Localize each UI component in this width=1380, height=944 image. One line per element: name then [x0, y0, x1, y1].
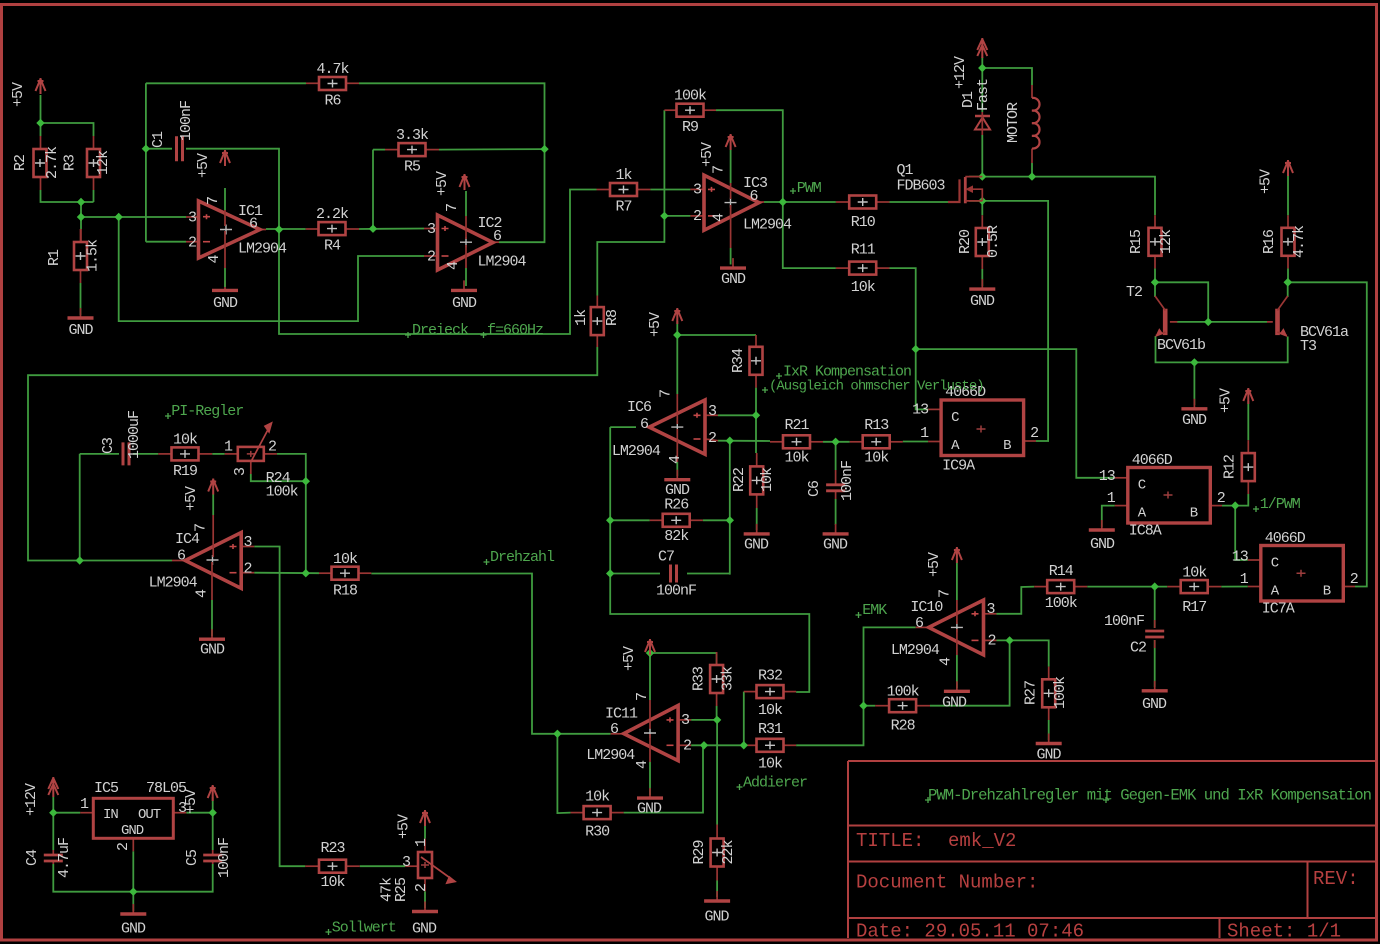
svg-text:Document Number:: Document Number: — [856, 872, 1038, 894]
svg-text:R25: R25 — [393, 877, 410, 902]
svg-text:+12V: +12V — [952, 56, 969, 89]
svg-text:7: 7 — [193, 524, 210, 532]
svg-text:GND: GND — [744, 537, 769, 554]
svg-text:R6: R6 — [324, 93, 341, 110]
svg-text:C: C — [951, 410, 959, 426]
svg-text:100k: 100k — [1045, 595, 1078, 612]
svg-text:100k: 100k — [887, 684, 920, 701]
svg-text:1: 1 — [920, 425, 929, 442]
svg-text:PI-Regler: PI-Regler — [171, 403, 243, 420]
svg-text:R15: R15 — [1128, 229, 1145, 254]
svg-text:C: C — [1271, 556, 1279, 572]
svg-text:3: 3 — [708, 403, 717, 420]
svg-text:+5V: +5V — [621, 646, 638, 671]
svg-text:PWM: PWM — [797, 180, 822, 197]
svg-text:C1: C1 — [150, 131, 167, 148]
svg-text:2: 2 — [693, 208, 701, 225]
svg-text:R2: R2 — [12, 155, 29, 171]
svg-text:7: 7 — [658, 390, 675, 398]
svg-text:+5V: +5V — [195, 153, 212, 178]
svg-text:R21: R21 — [784, 417, 809, 434]
svg-text:PWM-Drehzahlregler mit Gegen-E: PWM-Drehzahlregler mit Gegen-EMK und IxR… — [928, 787, 1371, 805]
svg-text:6: 6 — [915, 615, 924, 632]
svg-text:4: 4 — [206, 255, 223, 264]
svg-text:4: 4 — [938, 657, 955, 666]
svg-text:LM2904: LM2904 — [238, 241, 287, 258]
svg-text:GND: GND — [412, 921, 437, 938]
svg-text:4.7k: 4.7k — [1291, 225, 1308, 258]
svg-text:3: 3 — [244, 534, 253, 551]
svg-text:2: 2 — [413, 884, 430, 892]
svg-text:10k: 10k — [864, 450, 889, 467]
svg-text:3: 3 — [987, 601, 996, 618]
svg-text:100nF: 100nF — [656, 583, 696, 600]
svg-text:3: 3 — [402, 854, 411, 871]
svg-text:R33: R33 — [691, 666, 708, 691]
svg-text:2: 2 — [188, 235, 196, 252]
svg-text:R16: R16 — [1261, 229, 1278, 254]
svg-text:4066D: 4066D — [1132, 452, 1173, 469]
svg-text:B: B — [1190, 506, 1198, 522]
svg-text:4: 4 — [634, 760, 651, 769]
svg-text:4: 4 — [194, 589, 211, 598]
svg-text:IC4: IC4 — [175, 531, 200, 548]
svg-text:LM2904: LM2904 — [586, 747, 635, 764]
svg-text:7: 7 — [634, 693, 651, 701]
svg-text:3: 3 — [188, 210, 197, 227]
svg-text:EMK: EMK — [862, 602, 887, 619]
svg-text:2: 2 — [115, 843, 132, 851]
svg-text:2: 2 — [427, 249, 435, 266]
svg-text:GND: GND — [1182, 412, 1207, 429]
svg-text:7: 7 — [711, 166, 728, 174]
svg-text:REV:: REV: — [1313, 868, 1359, 890]
svg-text:1/PWM: 1/PWM — [1260, 496, 1301, 513]
svg-text:4.7uF: 4.7uF — [56, 838, 73, 878]
svg-text:R17: R17 — [1182, 599, 1206, 616]
svg-text:GND: GND — [1142, 696, 1167, 713]
svg-text:Date: 29.05.11 07:46: Date: 29.05.11 07:46 — [856, 921, 1084, 943]
svg-text:13: 13 — [1232, 549, 1249, 566]
svg-text:C4: C4 — [24, 849, 41, 866]
svg-text:+12V: +12V — [23, 783, 40, 816]
svg-text:82k: 82k — [664, 528, 689, 545]
svg-text:4: 4 — [445, 261, 462, 270]
svg-text:2: 2 — [683, 738, 691, 755]
svg-text:7: 7 — [205, 197, 222, 205]
svg-text:1.5k: 1.5k — [85, 239, 102, 272]
svg-text:10k: 10k — [759, 467, 776, 492]
svg-text:1: 1 — [80, 796, 89, 813]
svg-text:emk_V2: emk_V2 — [948, 830, 1016, 852]
svg-text:1000uF: 1000uF — [126, 411, 143, 459]
svg-text:+5V: +5V — [395, 814, 412, 839]
svg-text:GND: GND — [637, 801, 662, 818]
svg-text:R34: R34 — [730, 348, 747, 373]
svg-text:3: 3 — [427, 221, 436, 238]
svg-text:100k: 100k — [266, 484, 299, 501]
svg-text:Dreieck: Dreieck — [412, 322, 469, 339]
svg-text:+5V: +5V — [647, 312, 664, 337]
svg-text:R1: R1 — [46, 249, 63, 266]
svg-text:GND: GND — [121, 823, 144, 839]
svg-text:GND: GND — [200, 642, 225, 659]
svg-text:33k: 33k — [720, 666, 737, 691]
svg-text:Fast: Fast — [975, 79, 992, 111]
svg-text:6: 6 — [750, 188, 759, 205]
svg-text:3.3k: 3.3k — [396, 127, 429, 144]
svg-text:Q1: Q1 — [897, 162, 914, 179]
svg-text:100nF: 100nF — [216, 838, 233, 878]
svg-text:10k: 10k — [758, 756, 783, 773]
svg-text:T3: T3 — [1300, 338, 1317, 355]
svg-text:3: 3 — [232, 467, 249, 476]
svg-text:f=660Hz: f=660Hz — [487, 322, 543, 339]
svg-text:+5V: +5V — [1218, 388, 1235, 413]
svg-text:BCV61b: BCV61b — [1157, 337, 1205, 354]
svg-text:R26: R26 — [664, 497, 689, 514]
svg-text:LM2904: LM2904 — [478, 254, 527, 271]
svg-text:R32: R32 — [758, 668, 782, 685]
svg-text:GND: GND — [1090, 536, 1115, 553]
svg-text:FDB603: FDB603 — [897, 178, 946, 195]
svg-text:C3: C3 — [100, 437, 117, 454]
svg-text:R4: R4 — [324, 238, 341, 255]
svg-text:B: B — [1003, 438, 1011, 454]
svg-text:R12: R12 — [1222, 455, 1239, 479]
svg-text:T2: T2 — [1126, 284, 1142, 301]
svg-text:2.2k: 2.2k — [316, 206, 349, 223]
svg-text:1: 1 — [1107, 490, 1116, 507]
svg-text:+5V: +5V — [434, 171, 451, 196]
svg-text:10k: 10k — [784, 450, 809, 467]
svg-text:IC10: IC10 — [910, 599, 943, 616]
svg-text:R8: R8 — [604, 309, 621, 326]
svg-text:LM2904: LM2904 — [743, 217, 792, 234]
svg-text:IC6: IC6 — [627, 399, 652, 416]
svg-text:Addierer: Addierer — [743, 775, 807, 792]
svg-text:GND: GND — [121, 921, 146, 938]
svg-text:100nF: 100nF — [839, 461, 856, 501]
svg-text:6: 6 — [249, 216, 258, 233]
svg-text:1: 1 — [224, 439, 233, 456]
svg-text:2: 2 — [244, 561, 252, 578]
svg-text:LM2904: LM2904 — [891, 642, 940, 659]
svg-text:12k: 12k — [95, 150, 112, 175]
svg-text:GND: GND — [68, 322, 93, 339]
svg-text:R9: R9 — [682, 119, 698, 136]
svg-text:10k: 10k — [333, 551, 358, 568]
svg-text:4066D: 4066D — [1265, 530, 1306, 547]
svg-text:3: 3 — [693, 182, 702, 199]
svg-text:R23: R23 — [320, 840, 345, 857]
svg-text:R20: R20 — [957, 229, 974, 254]
svg-text:100nF: 100nF — [1104, 613, 1144, 630]
svg-text:GND: GND — [213, 295, 238, 312]
svg-text:1: 1 — [413, 838, 430, 847]
svg-text:Sheet: 1/1: Sheet: 1/1 — [1227, 921, 1341, 943]
svg-text:IC11: IC11 — [605, 706, 638, 723]
svg-text:GND: GND — [823, 537, 848, 554]
svg-text:2: 2 — [268, 439, 276, 456]
svg-text:13: 13 — [1099, 468, 1116, 485]
svg-text:LM2904: LM2904 — [149, 575, 198, 592]
svg-text:(Ausgleich ohmscher Verluste): (Ausgleich ohmscher Verluste) — [769, 379, 984, 395]
svg-text:7: 7 — [936, 590, 953, 598]
svg-text:R18: R18 — [333, 583, 358, 600]
svg-text:R19: R19 — [173, 463, 197, 480]
svg-text:4: 4 — [711, 213, 728, 222]
svg-text:1: 1 — [1240, 571, 1249, 588]
svg-text:R29: R29 — [691, 840, 708, 864]
svg-text:10k: 10k — [1182, 565, 1207, 582]
svg-text:2: 2 — [708, 430, 716, 447]
svg-text:C6: C6 — [806, 480, 823, 497]
svg-text:12k: 12k — [1158, 229, 1175, 254]
svg-text:2: 2 — [1217, 490, 1225, 507]
svg-text:R30: R30 — [585, 824, 610, 841]
svg-text:6: 6 — [640, 416, 649, 433]
svg-text:10k: 10k — [320, 874, 345, 891]
svg-text:GND: GND — [942, 695, 967, 712]
svg-text:2: 2 — [988, 633, 996, 650]
svg-text:+5V: +5V — [699, 142, 716, 167]
svg-text:6: 6 — [610, 721, 619, 738]
svg-text:2.7k: 2.7k — [44, 146, 61, 179]
svg-text:IC8A: IC8A — [1129, 523, 1162, 540]
svg-text:Sollwert: Sollwert — [332, 920, 396, 937]
svg-text:+5V: +5V — [926, 552, 943, 577]
svg-text:Drehzahl: Drehzahl — [490, 549, 555, 566]
svg-text:1k: 1k — [615, 167, 632, 184]
svg-text:R13: R13 — [864, 417, 889, 434]
svg-text:100nF: 100nF — [178, 101, 195, 141]
svg-text:2: 2 — [1350, 571, 1358, 588]
svg-text:IN: IN — [103, 807, 118, 823]
svg-text:2: 2 — [1030, 425, 1038, 442]
svg-text:78L05: 78L05 — [146, 780, 187, 797]
svg-text:R5: R5 — [404, 159, 421, 176]
svg-text:10k: 10k — [851, 279, 876, 296]
svg-text:IC7A: IC7A — [1262, 601, 1295, 618]
svg-text:+5V: +5V — [10, 82, 27, 107]
svg-text:10k: 10k — [758, 702, 783, 719]
svg-text:+5V: +5V — [1258, 169, 1275, 194]
svg-text:100k: 100k — [674, 88, 707, 105]
svg-text:10k: 10k — [173, 432, 198, 449]
svg-text:R22: R22 — [731, 468, 748, 492]
svg-text:4.7k: 4.7k — [316, 61, 349, 78]
svg-text:22k: 22k — [720, 840, 737, 865]
svg-text:6: 6 — [177, 548, 186, 565]
svg-text:GND: GND — [721, 271, 746, 288]
svg-text:GND: GND — [704, 909, 729, 926]
svg-text:100k: 100k — [1052, 676, 1069, 709]
svg-text:IC5: IC5 — [94, 780, 119, 797]
svg-text:R14: R14 — [1049, 563, 1074, 580]
svg-text:10k: 10k — [585, 789, 610, 806]
svg-text:OUT: OUT — [138, 807, 161, 823]
svg-text:R7: R7 — [615, 199, 631, 216]
svg-text:C2: C2 — [1130, 640, 1146, 657]
svg-text:IC9A: IC9A — [942, 458, 975, 475]
svg-text:3: 3 — [178, 800, 187, 817]
svg-text:MOTOR: MOTOR — [1005, 102, 1022, 143]
svg-text:GND: GND — [970, 293, 995, 310]
svg-text:R27: R27 — [1023, 681, 1040, 705]
svg-text:6: 6 — [493, 228, 502, 245]
svg-text:GND: GND — [452, 295, 477, 312]
svg-text:+5V: +5V — [183, 486, 200, 511]
svg-text:C7: C7 — [658, 549, 674, 566]
svg-text:3: 3 — [681, 712, 690, 729]
svg-text:R28: R28 — [891, 718, 916, 735]
svg-text:1k: 1k — [573, 309, 590, 326]
svg-text:C5: C5 — [184, 849, 201, 866]
svg-text:B: B — [1323, 584, 1331, 600]
svg-text:R3: R3 — [62, 154, 79, 171]
svg-text:GND: GND — [1036, 747, 1061, 764]
svg-text:R31: R31 — [758, 721, 783, 738]
svg-text:13: 13 — [912, 402, 929, 419]
svg-text:R10: R10 — [851, 214, 876, 231]
svg-text:LM2904: LM2904 — [612, 443, 661, 460]
svg-text:TITLE:: TITLE: — [856, 830, 924, 852]
svg-text:R11: R11 — [851, 242, 876, 259]
svg-text:0.5R: 0.5R — [985, 225, 1002, 258]
svg-text:7: 7 — [444, 204, 461, 212]
svg-text:C: C — [1138, 478, 1146, 494]
svg-text:4: 4 — [667, 455, 684, 464]
